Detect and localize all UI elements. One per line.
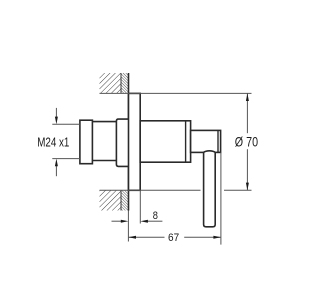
escutcheon plate	[129, 93, 141, 190]
extension line bottom left (plate bottom / O70)	[100, 189, 201, 191]
threaded shaft M24x1	[92, 122, 116, 161]
dimension M24x1 bottom arrow	[55, 159, 58, 177]
hub end-cap line	[217, 130, 219, 152]
dimension 8	[112, 220, 163, 223]
wall hatch top block	[100, 73, 129, 93]
extension line for 8/67 at wall face	[127, 211, 129, 242]
mounting collar (collar B)	[116, 119, 128, 166]
tile layer divider bottom	[120, 190, 122, 210]
union nut (collar A)	[80, 120, 93, 164]
wall face line	[128, 73, 130, 211]
dimension M24x1 extension lines	[52, 123, 80, 125]
svg-text:67: 67	[168, 232, 179, 245]
dimension 67	[128, 236, 221, 239]
dimension M24x1 top arrow	[55, 108, 58, 124]
extension line for 8 at plate right	[139, 190, 141, 223]
svg-text:8: 8	[153, 211, 159, 223]
sleeve end-cap line	[185, 121, 187, 162]
tile layer divider top	[120, 73, 122, 93]
dimension O70 line	[246, 93, 249, 190]
extension line bottom right	[224, 189, 252, 191]
sleeve (valve body front)	[140, 121, 190, 162]
svg-text:M24 x1: M24 x1	[37, 136, 69, 149]
svg-text:Ø 70: Ø 70	[235, 134, 258, 149]
lever handle	[204, 151, 216, 227]
extension line for 67 at hub end	[220, 152, 222, 244]
wall hatch bottom block	[100, 190, 129, 210]
handle hub	[191, 130, 221, 152]
extension line top (plate top / O70)	[100, 92, 252, 94]
